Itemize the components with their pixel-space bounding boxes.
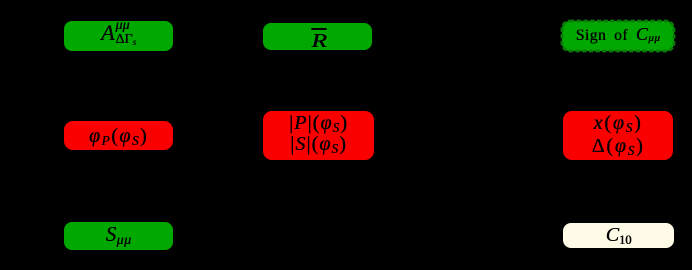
node Smumu (green box, bottom-left) <box>64 222 173 250</box>
node C10 (cream box, bottom-right) <box>563 223 674 248</box>
node Rbar (green box, top-middle) <box>263 23 372 50</box>
node x-Delta (red box, middle-right) <box>563 111 673 160</box>
node Sign-of-Cmumu dashed border (green dashed box, top-right) <box>558 17 678 55</box>
node P-S-moduli (red box, middle-center) <box>263 111 374 160</box>
node A_DeltaGammaS (green box, top-left) <box>64 21 173 51</box>
node phiP(phiS) (red box, middle-left) <box>64 121 173 150</box>
node Sign-of-Cmumu label <box>562 21 674 51</box>
